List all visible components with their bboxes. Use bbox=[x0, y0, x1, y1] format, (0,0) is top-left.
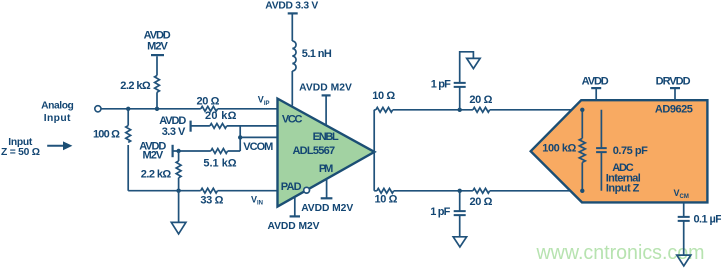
op-amp ADL5567 bbox=[278, 99, 375, 207]
svg-text:AVDD M2V: AVDD M2V bbox=[299, 82, 352, 93]
node junction 5.1k/2.2k bbox=[176, 149, 180, 153]
resistor 20 kohm bbox=[210, 124, 227, 129]
wire 5.1 kohm net bbox=[173, 150, 241, 152]
svg-text:33 Ω: 33 Ω bbox=[200, 194, 223, 206]
node VCOM bbox=[238, 135, 242, 139]
svg-text:AVDD M2V: AVDD M2V bbox=[301, 203, 353, 214]
svg-text:20 Ω: 20 Ω bbox=[470, 196, 493, 208]
supply DRVDD stub bbox=[670, 88, 680, 100]
svg-text:5.1 nH: 5.1 nH bbox=[302, 48, 332, 60]
supply AVDD M2V (top-left) bbox=[151, 55, 164, 109]
wire input top bbox=[101, 108, 278, 110]
ground (VCM) bbox=[677, 255, 691, 266]
resistor 20 ohm (top) bbox=[473, 107, 490, 112]
ground (input network) bbox=[171, 191, 186, 234]
ground (top filter) bbox=[467, 58, 480, 68]
svg-text:0.75 pF: 0.75 pF bbox=[613, 145, 648, 157]
supply PM stub AVDD M2V bbox=[321, 179, 333, 198]
node ADC top bbox=[580, 108, 584, 112]
svg-text:PM: PM bbox=[319, 163, 333, 175]
svg-text:Input: Input bbox=[44, 113, 71, 124]
node bottom filter bbox=[458, 189, 462, 193]
wire VCOM tie bbox=[239, 126, 241, 151]
resistor 20 ohm (bottom) bbox=[473, 188, 490, 193]
resistor 2.2 kohm (lower) bbox=[176, 161, 181, 178]
svg-text:M2V: M2V bbox=[143, 150, 164, 162]
wire 20 kohm net bbox=[191, 125, 278, 127]
capacitor 1 pF (top) bbox=[454, 52, 474, 110]
node junction input/100ohm bbox=[126, 107, 130, 111]
svg-text:AVDD 3.3 V: AVDD 3.3 V bbox=[265, 0, 318, 11]
wire output fan bbox=[373, 110, 375, 191]
arrow input bbox=[47, 141, 72, 150]
svg-text:ADL5567: ADL5567 bbox=[292, 145, 335, 157]
svg-text:VCOM: VCOM bbox=[243, 141, 273, 153]
wire output bottom bbox=[374, 190, 601, 192]
svg-text:DRVDD: DRVDD bbox=[656, 76, 691, 88]
pin PAD circle bbox=[304, 187, 310, 193]
wire 2.2 kohm (lower) branch bbox=[178, 151, 180, 191]
supply AVDD 3.3 V (main top) bbox=[288, 13, 298, 105]
svg-text:AVDD: AVDD bbox=[582, 76, 609, 88]
supply PAD stub AVDD M2V bbox=[290, 197, 300, 216]
svg-text:0.1 µF: 0.1 µF bbox=[694, 213, 721, 225]
ADC AD9625 block bbox=[531, 100, 708, 202]
node junction bottom/2.2k bbox=[176, 189, 180, 193]
wire 100 ohm branch bbox=[127, 109, 129, 191]
svg-text:5.1 kΩ: 5.1 kΩ bbox=[203, 157, 236, 169]
wire input bottom bbox=[128, 190, 277, 192]
resistor 10 ohm (bottom) bbox=[377, 188, 394, 193]
resistor 33 ohm bbox=[201, 188, 218, 193]
supply AVDD 3.3 V (bias, vertical bar) bbox=[190, 121, 192, 132]
svg-text:ENBL: ENBL bbox=[313, 131, 339, 143]
svg-text:Analog: Analog bbox=[41, 100, 74, 111]
resistor 100 ohm bbox=[126, 126, 131, 143]
supply AVDD stub bbox=[591, 88, 601, 100]
svg-text:1 pF: 1 pF bbox=[430, 206, 450, 218]
resistor 5.1 kohm bbox=[211, 149, 228, 154]
svg-text:2.2 kΩ: 2.2 kΩ bbox=[141, 169, 172, 181]
inductor 5.1 nH bbox=[292, 41, 296, 71]
svg-text:VCC: VCC bbox=[282, 113, 303, 125]
svg-text:10 Ω: 10 Ω bbox=[375, 194, 398, 206]
svg-text:20 Ω: 20 Ω bbox=[197, 95, 220, 107]
capacitor 0.1 uF bbox=[678, 202, 690, 255]
node junction input/2.2k bbox=[155, 107, 159, 111]
svg-text:Z = 50 Ω: Z = 50 Ω bbox=[1, 147, 40, 158]
svg-text:10 Ω: 10 Ω bbox=[372, 90, 395, 102]
svg-text:www.cntronics.com: www.cntronics.com bbox=[536, 242, 705, 264]
svg-text:Input Z: Input Z bbox=[606, 183, 640, 195]
input terminal circle bbox=[95, 106, 101, 112]
capacitor 1 pF (bottom) bbox=[454, 191, 466, 237]
svg-text:M2V: M2V bbox=[147, 41, 168, 53]
svg-text:AVDD M2V: AVDD M2V bbox=[268, 221, 320, 232]
resistor 2.2 kohm (upper) bbox=[155, 76, 160, 93]
svg-text:AD9625: AD9625 bbox=[655, 103, 693, 115]
svg-text:100 kΩ: 100 kΩ bbox=[542, 143, 576, 155]
svg-text:2.2 kΩ: 2.2 kΩ bbox=[120, 80, 151, 92]
resistor 10 ohm (top) bbox=[376, 107, 393, 112]
node top filter bbox=[458, 108, 462, 112]
supply AVDD M2V (bias, vertical bar) bbox=[172, 145, 174, 157]
svg-text:3.3 V: 3.3 V bbox=[162, 126, 186, 138]
resistor 20 ohm (input series) bbox=[201, 106, 218, 111]
svg-text:20 Ω: 20 Ω bbox=[469, 94, 492, 106]
node ADC bottom bbox=[580, 189, 584, 193]
supply ENBL stub AVDD M2V bbox=[322, 95, 331, 125]
svg-text:1 pF: 1 pF bbox=[431, 79, 451, 91]
ground (bottom filter) bbox=[453, 237, 466, 247]
svg-text:20 kΩ: 20 kΩ bbox=[205, 110, 237, 122]
resistor 100 kohm (ADC internal) bbox=[579, 110, 585, 191]
svg-text:PAD: PAD bbox=[281, 181, 302, 193]
svg-text:100 Ω: 100 Ω bbox=[93, 129, 120, 141]
wire output top bbox=[374, 109, 601, 111]
capacitor 0.75 pF (ADC internal) bbox=[596, 110, 607, 191]
wire VCOM bbox=[240, 136, 277, 138]
